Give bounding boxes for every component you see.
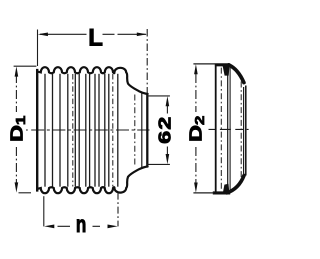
dimension L arrow left [38, 33, 48, 37]
bellows top profile [38, 67, 148, 94]
cap inner line dashed left [220, 68, 222, 191]
dimension 62 arrow bottom [166, 154, 170, 164]
bellows neck right edge [146, 94, 148, 167]
cap left edge [215, 64, 217, 193]
dimension 62 leader top [147, 95, 170, 97]
dimension D1 line dash-dot [15, 74, 17, 184]
bellows bottom profile [38, 167, 148, 194]
dimension D1 extension bottom [19, 192, 32, 194]
cap inner line dashed right [240, 82, 242, 180]
dimension D1 arrow top [15, 66, 19, 76]
dimension n arrow right [108, 225, 118, 229]
svg-text:62: 62 [155, 116, 174, 144]
cap top inner fillet [222, 64, 229, 75]
bellows fold lines [45, 74, 118, 187]
svg-text:n: n [76, 211, 86, 237]
cap bottom edge [213, 191, 230, 194]
dimension D1 arrow bottom [15, 182, 19, 192]
cap top edge [215, 63, 230, 66]
cap top chamfer [229, 65, 244, 83]
cap inner line solid 2 [229, 66, 231, 191]
dimension D1 extension top [14, 65, 37, 67]
dimension L extension left [37, 30, 39, 67]
label D2 [186, 116, 207, 142]
dimension L arrow right [137, 33, 147, 37]
dimension D2 extension bottom [193, 192, 214, 194]
dimension n extension right dash-dot [117, 193, 119, 227]
dimension 62 line [166, 106, 168, 155]
neck fold line solid [141, 92, 143, 168]
cap bottom chamfer [227, 176, 244, 193]
bellows fold lines dashed [73, 74, 113, 187]
label 62 [155, 116, 174, 144]
dimension D2 line dash-dot [195, 74, 197, 183]
dimension L extension right dash-dot [146, 29, 148, 93]
bellows left edge [36, 69, 38, 192]
cap right edge inner [243, 87, 245, 175]
cap right edge outer [245, 86, 247, 176]
dimension L line [40, 33, 146, 35]
neck fold line dashed [134, 95, 136, 166]
dimension D2 arrow top [194, 64, 198, 74]
dimension n arrow left [44, 225, 54, 229]
dimension 62 leader bottom [147, 163, 170, 165]
dimension 62 arrow top [166, 96, 170, 106]
dimension n line [58, 225, 101, 227]
dimension D2 extension top [193, 63, 215, 65]
label D1 [7, 116, 28, 142]
centerline right view [209, 128, 249, 130]
cap bottom inner fillet [223, 184, 230, 194]
svg-text:L: L [88, 25, 103, 52]
dimension n extension left [43, 196, 45, 226]
dimension D2 arrow bottom [194, 183, 198, 193]
centerline left view [26, 129, 150, 131]
cap inner line solid 1 [227, 66, 229, 191]
